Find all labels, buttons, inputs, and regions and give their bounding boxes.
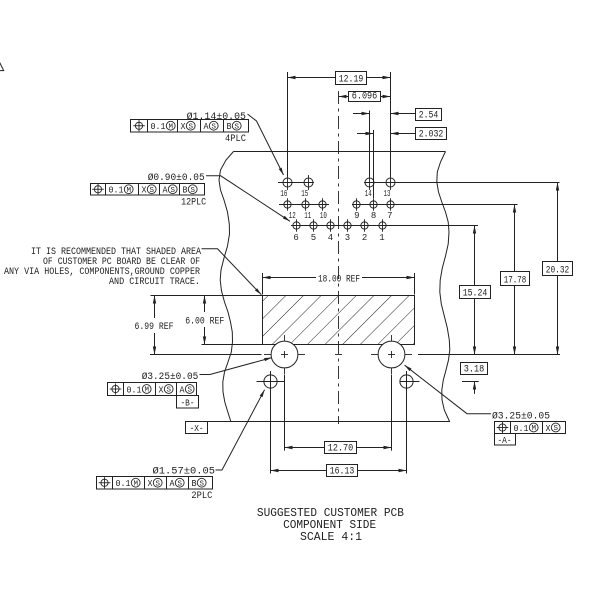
svg-text:3: 3	[345, 233, 350, 243]
feature control frame A	[495, 422, 566, 434]
hole 12 (Ø0.90)	[284, 201, 291, 208]
feature control frame 2PLC	[97, 477, 213, 490]
svg-text:14: 14	[365, 189, 372, 199]
svg-text:S: S	[199, 480, 204, 488]
svg-text:S: S	[170, 187, 175, 195]
svg-text:S: S	[187, 387, 192, 395]
svg-text:4PLC: 4PLC	[225, 134, 246, 145]
dimension 2.54	[353, 113, 370, 115]
svg-text:12: 12	[289, 211, 296, 221]
wire rect-top-edge extension left	[151, 295, 263, 297]
wire row2 line left segment	[279, 204, 329, 206]
dimension 6.99 REF	[154, 296, 156, 319]
datum box -B-	[177, 396, 199, 409]
hole 4 (Ø0.90)	[327, 222, 334, 229]
svg-text:S: S	[149, 187, 154, 195]
revision triangle (cropped)	[0, 55, 4, 71]
dimension 18.00 REF	[262, 273, 264, 295]
svg-text:-B-: -B-	[181, 397, 195, 408]
feature control frame 12PLC	[91, 184, 205, 196]
svg-text:11: 11	[304, 211, 311, 221]
svg-text:0.1: 0.1	[127, 384, 142, 395]
svg-text:S: S	[234, 123, 239, 131]
wire ext big-right down	[391, 375, 393, 451]
dimension 3.18	[461, 363, 488, 375]
wire row1 line right segment	[364, 182, 560, 184]
leader Ø3.25-left to big hole	[200, 358, 272, 375]
centerline horizontal big holes	[150, 354, 262, 356]
svg-text:5: 5	[311, 233, 316, 243]
svg-text:A: A	[180, 384, 185, 395]
hole 16 (Ø1.14)	[283, 178, 292, 187]
centerline vertical big hole left	[284, 335, 286, 342]
break line left (wavy)	[219, 152, 234, 423]
dimension 12.70	[285, 447, 325, 449]
feature control frame 4PLC	[131, 120, 249, 133]
hole 7 (Ø0.90)	[387, 201, 394, 208]
dimension 2.032	[357, 133, 374, 135]
svg-text:X: X	[181, 121, 186, 132]
svg-text:M: M	[126, 187, 131, 195]
svg-text:M: M	[133, 480, 138, 488]
datum box -A-	[495, 434, 516, 446]
svg-text:S: S	[553, 425, 558, 433]
dimension 16.13	[271, 470, 327, 472]
wire ext hole8 col up	[373, 130, 375, 198]
svg-text:Ø0.90±0.05: Ø0.90±0.05	[148, 172, 205, 184]
svg-text:6.00 REF: 6.00 REF	[185, 317, 224, 328]
wire row1 line left segment	[278, 182, 314, 184]
leader Ø1.57 to small hole	[216, 390, 265, 470]
svg-text:1: 1	[379, 233, 384, 243]
svg-text:16: 16	[280, 189, 287, 199]
svg-text:12PLC: 12PLC	[181, 197, 206, 208]
wire ext big-left down	[284, 375, 286, 451]
wire row2 line right segment	[352, 204, 518, 206]
wire ext small-left down	[270, 371, 272, 474]
hole 8 (Ø0.90)	[370, 201, 377, 208]
dimension 6.00 REF	[204, 296, 206, 313]
wire ext hole13 col up	[390, 72, 392, 177]
svg-text:X: X	[159, 384, 164, 395]
svg-text:15: 15	[301, 189, 308, 199]
svg-text:S: S	[177, 480, 182, 488]
centerline vertical big hole right	[391, 335, 393, 342]
leader Ø3.25-right to big hole	[405, 365, 491, 414]
svg-text:0.1: 0.1	[514, 423, 529, 434]
svg-text:-A-: -A-	[498, 435, 512, 446]
svg-text:SCALE 4:1: SCALE 4:1	[300, 531, 362, 544]
hole 1 (Ø0.90)	[379, 222, 386, 229]
svg-text:6.99 REF: 6.99 REF	[135, 322, 174, 333]
svg-text:X: X	[546, 423, 551, 434]
wire part top edge	[234, 151, 446, 153]
svg-text:B: B	[227, 121, 232, 132]
svg-text:2PLC: 2PLC	[191, 491, 212, 502]
svg-text:6.096: 6.096	[352, 91, 378, 102]
centerline vertical main	[338, 91, 340, 424]
hole 10 (Ø0.90)	[319, 201, 326, 208]
datum box -X-	[186, 422, 208, 434]
svg-text:B: B	[192, 478, 197, 489]
hole 14 (Ø1.14)	[365, 178, 374, 187]
mounting hole left (Ø3.25)	[271, 341, 298, 368]
svg-text:Ø3.25±0.05: Ø3.25±0.05	[492, 411, 550, 423]
dimension 17.78	[514, 205, 516, 272]
svg-text:7: 7	[387, 211, 392, 221]
hole 3 (Ø0.90)	[344, 222, 351, 229]
svg-text:0.1: 0.1	[109, 185, 124, 196]
leader Ø1.14 to hole 16	[248, 114, 284, 175]
wire ext hole16 col up	[287, 72, 289, 177]
svg-text:18.00 REF: 18.00 REF	[318, 275, 360, 286]
svg-text:AND CIRCUIT TRACE.: AND CIRCUIT TRACE.	[109, 277, 200, 288]
svg-text:2.032: 2.032	[419, 129, 444, 140]
dimension 6.096	[339, 96, 349, 98]
svg-text:8: 8	[371, 211, 376, 221]
svg-text:A: A	[163, 185, 168, 196]
svg-text:6: 6	[293, 233, 298, 243]
hole 6 (Ø0.90)	[293, 222, 300, 229]
svg-text:0.1: 0.1	[116, 478, 131, 489]
svg-text:A: A	[170, 478, 175, 489]
hole 11 (Ø0.90)	[302, 201, 309, 208]
svg-text:S: S	[155, 480, 160, 488]
locating hole right (Ø1.57)	[400, 375, 413, 388]
svg-text:16.13: 16.13	[330, 466, 355, 477]
svg-text:S: S	[211, 123, 216, 131]
svg-text:13: 13	[384, 189, 391, 199]
svg-text:3.18: 3.18	[464, 364, 485, 375]
svg-text:X: X	[148, 478, 153, 489]
svg-text:0.1: 0.1	[151, 121, 166, 132]
centerline horizontal small holes	[257, 381, 285, 383]
hole 2 (Ø0.90)	[361, 222, 368, 229]
svg-text:9: 9	[354, 211, 359, 221]
svg-text:M: M	[168, 123, 173, 131]
svg-text:12.19: 12.19	[339, 74, 364, 85]
svg-text:2: 2	[362, 233, 367, 243]
hole 13 (Ø1.14)	[386, 178, 395, 187]
svg-text:M: M	[531, 425, 536, 433]
svg-text:4: 4	[328, 233, 333, 243]
svg-text:15.24: 15.24	[463, 288, 488, 299]
dimension 12.19	[288, 77, 336, 79]
hole 5 (Ø0.90)	[310, 222, 317, 229]
svg-text:X: X	[142, 185, 147, 196]
svg-text:17.78: 17.78	[504, 275, 527, 286]
svg-text:S: S	[190, 187, 195, 195]
mounting hole right (Ø3.25)	[378, 341, 405, 368]
break line right (wavy)	[437, 152, 450, 423]
dimension 20.32	[557, 183, 559, 262]
svg-text:B: B	[183, 185, 188, 196]
wire row3 line	[291, 225, 478, 227]
shaded clearance area (hatched rect)	[263, 296, 415, 345]
svg-text:Ø1.57±0.05: Ø1.57±0.05	[153, 466, 216, 478]
wire part bottom edge	[208, 421, 450, 423]
svg-text:12.70: 12.70	[328, 443, 354, 454]
svg-text:20.32: 20.32	[546, 265, 570, 276]
svg-text:-X-: -X-	[190, 423, 204, 434]
leader note to shaded area	[202, 249, 262, 295]
svg-text:M: M	[144, 387, 149, 395]
wire rect-bottom-edge extension left	[202, 344, 263, 346]
wire ext hole14 col up	[369, 111, 371, 177]
hole 9 (Ø0.90)	[353, 201, 360, 208]
svg-text:Ø3.25±0.05: Ø3.25±0.05	[142, 371, 199, 383]
wire ext small-right down	[406, 371, 408, 474]
svg-text:S: S	[166, 387, 171, 395]
svg-text:A: A	[204, 121, 209, 132]
leader Ø0.90 to hole 6	[206, 176, 290, 222]
svg-text:S: S	[188, 123, 193, 131]
svg-text:2.54: 2.54	[419, 110, 439, 121]
svg-text:10: 10	[320, 211, 327, 221]
feature control frame B	[108, 383, 197, 396]
hole 15 (Ø1.14)	[304, 178, 313, 187]
dimension 15.24	[474, 226, 476, 286]
locating hole left (Ø1.57)	[264, 375, 277, 388]
